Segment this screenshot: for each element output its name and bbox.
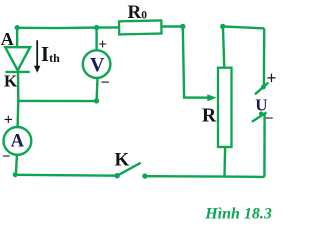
wire top bus: [17, 26, 119, 29]
resistor R top stub: [223, 26, 224, 67]
wire diode anode stub: [16, 28, 19, 46]
wire dot1 down and rheostat arrow to R: [183, 27, 210, 98]
node dot2 R top junction: [220, 24, 225, 29]
node bottom-left corner dot: [13, 172, 18, 177]
svg-text:K: K: [4, 72, 18, 91]
voltmeter top stub: [95, 28, 97, 51]
wire bottom left segment: [15, 174, 117, 177]
ammeter A circle: [4, 127, 32, 155]
voltmeter bottom stub: [95, 78, 98, 101]
svg-text:Hình 18.3: Hình 18.3: [204, 205, 272, 222]
svg-text:A: A: [1, 29, 14, 49]
wire right vertical upper: [263, 28, 266, 87]
diode D cathode bar: [5, 71, 29, 73]
svg-text:K: K: [115, 150, 130, 171]
wire horizontal to voltmeter bottom: [18, 100, 97, 103]
node voltmeter top junction dot: [94, 25, 99, 30]
node voltmeter bottom junction dot: [94, 98, 99, 103]
rheostat arrow head: [207, 94, 216, 101]
resistor R: [218, 68, 232, 147]
svg-text:−: −: [265, 111, 274, 127]
wire diode cathode down to ammeter: [16, 72, 19, 127]
svg-text:−: −: [100, 75, 109, 92]
node top-left junction dot: [15, 25, 20, 30]
battery U upper terminal dot: [261, 85, 266, 90]
svg-text:A: A: [11, 131, 25, 151]
svg-text:+: +: [4, 112, 13, 129]
switch K pivot dot: [114, 173, 119, 178]
resistor R bottom stub: [223, 147, 226, 177]
battery U lower tick: [252, 112, 267, 121]
switch K right terminal dot: [142, 173, 147, 178]
svg-text:V: V: [90, 54, 105, 76]
svg-text:+: +: [267, 68, 277, 88]
wire top bus dot2 to corner: [223, 26, 264, 28]
svg-text:Ith: Ith: [41, 42, 60, 66]
diode D triangle: [5, 47, 30, 70]
svg-text:R: R: [202, 106, 217, 127]
wire top bus right of R0: [161, 25, 182, 27]
battery U upper tick: [255, 83, 268, 95]
node dot1 R0-rheostat junction: [180, 24, 185, 29]
resistor R0: [119, 20, 162, 34]
wire ammeter bottom: [16, 155, 17, 175]
wire bottom right segment: [145, 175, 265, 178]
battery U lower terminal dot: [259, 112, 264, 117]
svg-text:+: +: [98, 37, 107, 53]
switch K blade: [117, 163, 141, 176]
voltmeter V circle: [83, 50, 111, 78]
svg-text:R0: R0: [128, 2, 148, 23]
svg-text:−: −: [2, 149, 11, 165]
current arrow Ith: [34, 40, 40, 73]
wire right vertical lower: [263, 114, 266, 177]
